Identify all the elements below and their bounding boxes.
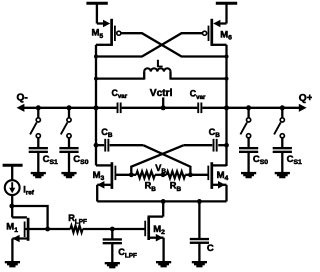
power rail VDD right (M6 supply) [216,3,237,23]
wire RLPF to M2 gate [83,227,115,232]
wire CB right to M3 gate (cross) [131,145,183,175]
node Q- [17,93,28,104]
node Vctrl [150,88,173,110]
svg-text:VB: VB [155,163,166,175]
ground under M2 [156,261,171,267]
svg-text:CB: CB [209,127,221,139]
power rail VDD (Iref) [3,165,23,180]
transistor M1 (NMOS diode) [6,217,70,261]
wire left tank rail [94,45,98,166]
svg-text:Q-: Q- [17,93,28,104]
wire M5 gate to right drain rail (cross-couple) [121,33,227,56]
svg-text:CS0: CS0 [253,154,268,166]
wire M1 diode connection [12,206,48,229]
capacitor CLPF [103,229,137,262]
ground under CLPF [105,262,120,268]
wire M4 source to tail [225,185,227,202]
ground under M1 [5,261,20,267]
svg-text:CB: CB [101,127,113,139]
svg-text:RB: RB [145,181,157,193]
varactor Cvar left [112,88,128,113]
svg-text:Q+: Q+ [299,93,312,104]
svg-text:Iref: Iref [23,184,35,196]
resistor RB left [131,171,156,192]
transistor M6 (PMOS) [203,19,233,46]
svg-text:CS0: CS0 [73,154,88,166]
svg-text:M6: M6 [220,29,232,41]
capacitor CB right [184,127,229,152]
svg-text:M1: M1 [6,222,18,234]
svg-text:L: L [157,59,163,70]
wire tail node [97,199,226,204]
svg-text:Cvar: Cvar [190,89,206,101]
transistor M4 (NMOS) [190,162,228,189]
switch for CS1 left [30,108,40,147]
wire differential output line [17,104,307,112]
capacitor CS1 right [273,147,302,178]
switch for CS0 right [240,108,250,147]
svg-text:RB: RB [170,181,182,193]
capacitor CS1 left [29,147,58,178]
svg-text:Cvar: Cvar [112,88,128,100]
svg-text:M3: M3 [93,170,105,182]
transistor M5 (PMOS) [92,19,121,46]
power rail VDD left (M5 supply) [86,3,107,23]
wire CB left to M4 gate (cross) [143,145,190,175]
capacitor CS0 right [239,147,268,178]
transistor M3 (NMOS) [93,162,132,189]
resistor RB right [155,171,190,192]
svg-text:M4: M4 [217,170,229,182]
current source Iref [5,180,35,196]
svg-text:C: C [207,243,214,254]
wire right tank rail [225,45,229,166]
varactor Cvar right [190,89,206,114]
svg-text:CS1: CS1 [287,154,302,166]
transistor M2 (NMOS mirror) [112,201,165,261]
node VB bias [129,163,193,177]
capacitor CB left [94,127,144,152]
inductor L [96,59,227,80]
capacitor C [190,201,214,261]
svg-text:M5: M5 [92,28,104,40]
svg-text:Vctrl: Vctrl [150,88,173,99]
capacitor CS0 left [59,147,88,178]
wire M3 source to tail [96,185,98,202]
switch for CS0 left [61,108,71,147]
ground under C [192,261,207,267]
switch for CS1 right [274,108,284,147]
wire Iref to M1 drain [9,195,14,217]
resistor RLPF [68,213,87,232]
node Q+ [299,93,313,104]
svg-text:CS1: CS1 [43,154,58,166]
wire M6 gate to left drain rail (cross-couple) [96,33,203,56]
svg-text:CLPF: CLPF [118,247,137,259]
svg-text:M2: M2 [153,224,165,236]
